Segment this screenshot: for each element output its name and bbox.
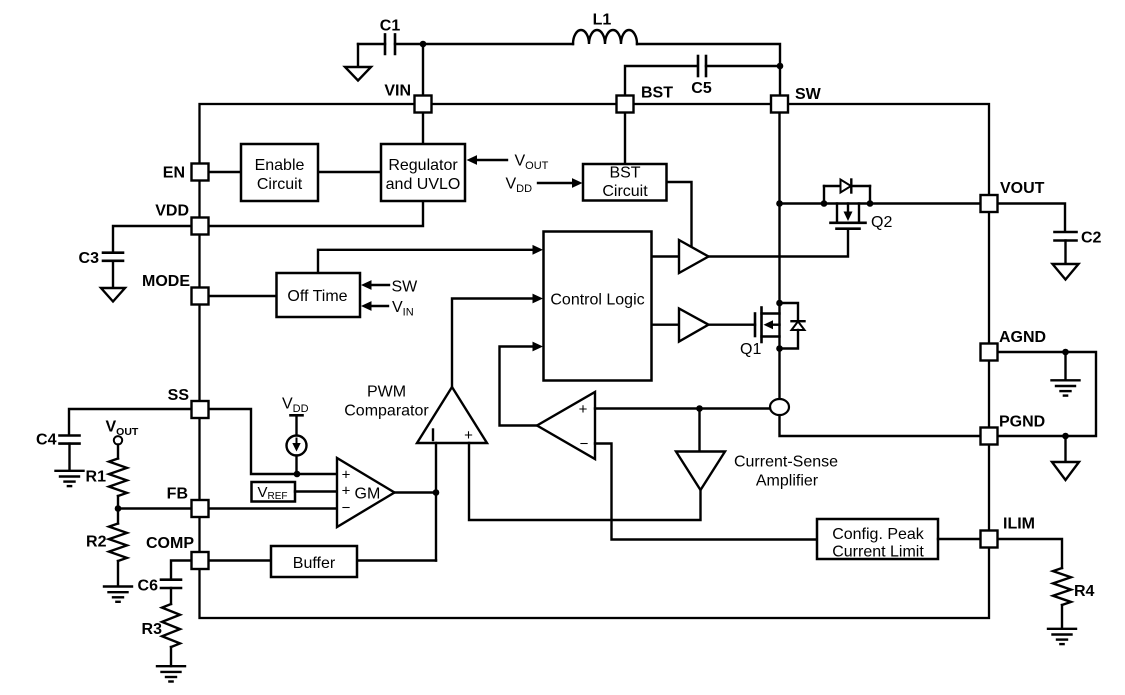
wire GM output node down to Buffer [435, 493, 437, 561]
svg-text:VIN: VIN [392, 299, 414, 319]
wire Off Time top to Control Logic input 1 [318, 250, 534, 273]
wire R1 to FB node [117, 496, 119, 509]
wire tap down to current-sense amplifier [698, 409, 700, 452]
wire EN pin to Enable Circuit [208, 171, 241, 173]
svg-text:R3: R3 [142, 621, 163, 638]
label R1 [86, 469, 107, 486]
svg-text:Control Logic: Control Logic [550, 292, 644, 309]
wire driver U4 output to Q1 gate [709, 324, 756, 326]
label VIN (off-time input) [392, 299, 414, 319]
arrow VIN into Off Time [361, 301, 388, 311]
label Q1 [740, 341, 761, 358]
capacitor C5 [698, 56, 706, 76]
svg-text:BST: BST [641, 85, 673, 102]
capacitor C3 [103, 253, 123, 261]
pin ILIM [981, 531, 998, 548]
pin COMP [192, 552, 209, 569]
ground (PGND, power) [1052, 436, 1079, 480]
svg-text:SS: SS [168, 387, 190, 404]
junction VIN-top node [420, 41, 427, 48]
svg-text:VOUT: VOUT [515, 153, 549, 173]
pin label FB [167, 486, 188, 503]
junction current source node [294, 471, 301, 478]
pin VIN [415, 96, 432, 113]
arrow VOUT into Regulator [467, 155, 508, 165]
ground (R4) [1048, 605, 1076, 644]
pin label EN [163, 165, 185, 182]
driver U3 (high-side) [679, 240, 709, 273]
junction FB divider node [115, 505, 122, 512]
driver U4 (low-side) [679, 309, 709, 342]
svg-text:Q1: Q1 [740, 341, 761, 358]
svg-text:Current Limit: Current Limit [832, 544, 924, 561]
ground (R2) [104, 561, 132, 602]
wire VOUT pin to C2 [997, 204, 1065, 232]
capacitor C4 [60, 436, 80, 444]
svg-text:+: + [342, 467, 351, 484]
svg-text:PGND: PGND [999, 414, 1045, 431]
block Buffer [271, 546, 357, 577]
wire BST pin to BST Circuit top [624, 104, 626, 164]
wire sense comparator + input from oval [595, 407, 770, 409]
svg-text:AGND: AGND [999, 329, 1046, 346]
svg-text:SW: SW [795, 86, 822, 103]
arrowhead Control Logic input 2 [533, 294, 544, 304]
svg-text:GM: GM [355, 486, 381, 503]
pin PGND [981, 428, 998, 445]
wire VIN pin to Regulator top [422, 104, 424, 144]
svg-text:ILIM: ILIM [1003, 516, 1035, 533]
svg-text:+: + [342, 483, 351, 500]
wire Control Logic output 2 to driver U4 [652, 324, 680, 326]
ground (AGND, signal) [1052, 352, 1080, 396]
wire BST pin riser [625, 66, 697, 96]
label PWM Comparator [344, 384, 429, 420]
svg-text:R4: R4 [1074, 583, 1095, 600]
wire MODE pin to Off Time [208, 295, 277, 297]
pin label AGND [999, 329, 1046, 346]
pin VOUT [981, 195, 998, 212]
arrow SW into Off Time [361, 280, 389, 290]
svg-text:VDD: VDD [506, 176, 533, 196]
block Regulator and UVLO [381, 144, 465, 201]
junction SW/Q2 node [776, 200, 783, 207]
label VOUT (regulator input) [515, 153, 549, 173]
pin label ILIM [1003, 516, 1035, 533]
svg-text:+: + [464, 427, 473, 444]
arrow VDD into BST Circuit [538, 178, 583, 188]
capacitor C6 [161, 580, 181, 588]
svg-text:−: − [342, 500, 351, 517]
op-amp GM (error amplifier) [337, 458, 395, 527]
wire Config Peak to ILIM pin [938, 538, 981, 540]
wire driver U3 output to Q2 gate [709, 229, 849, 257]
svg-text:FB: FB [167, 486, 188, 503]
svg-text:PWM: PWM [367, 384, 406, 401]
label L1 [593, 12, 612, 29]
svg-text:C3: C3 [79, 250, 100, 267]
wire C6 to R3 [170, 588, 172, 604]
label VOUT (feedback input) [106, 419, 139, 439]
ground (R3) [157, 647, 185, 682]
wire VIN-top node down to VIN pin [422, 44, 424, 96]
wire AGND pin to ground net [997, 352, 1096, 436]
svg-text:Regulator: Regulator [388, 157, 458, 174]
svg-text:Buffer: Buffer [293, 555, 336, 572]
label Q2 [871, 214, 892, 231]
pin label MODE [142, 273, 190, 290]
label R3 [142, 621, 163, 638]
svg-text:Current-Sense: Current-Sense [734, 454, 838, 471]
pin FB [192, 500, 209, 517]
svg-text:COMP: COMP [146, 535, 194, 552]
comparator U5 (PWM) [417, 387, 487, 444]
wire Control Logic output 1 to driver U3 [652, 255, 680, 257]
svg-text:MODE: MODE [142, 273, 190, 290]
label VDD (BST circuit input) [506, 176, 533, 196]
wire SS pin to C4 [69, 409, 191, 435]
svg-text:C2: C2 [1081, 230, 1102, 247]
wire PWM comparator left input [435, 443, 437, 493]
resistor R2 [109, 524, 127, 561]
wire SW branch below sense element to PGND [780, 415, 982, 436]
pin label BST [641, 85, 673, 102]
wire VDD pin to C3 [113, 226, 191, 252]
junction AGND ground stub [1062, 349, 1069, 356]
current source I1 [287, 415, 307, 474]
block BST Circuit [583, 164, 667, 201]
ground (C3) [101, 261, 125, 302]
wire FB node down to R2 [117, 509, 119, 524]
wire node to L1 [423, 43, 573, 45]
capacitor C1 [385, 34, 395, 54]
svg-text:Enable: Enable [255, 157, 305, 174]
wire ground to C1 [358, 43, 385, 45]
wire Regulator bottom to VDD pin [208, 201, 423, 226]
wire L1 to SW-top corner [637, 44, 780, 66]
svg-text:Config. Peak: Config. Peak [832, 526, 925, 543]
svg-text:Q2: Q2 [871, 214, 892, 231]
inductor L1 [573, 30, 637, 44]
svg-text:VOUT: VOUT [1000, 180, 1045, 197]
svg-text:VOUT: VOUT [106, 419, 139, 439]
transistor Q2 [821, 180, 874, 229]
wire C5 to SW node [706, 65, 780, 67]
wire Enable Circuit to Regulator [318, 171, 381, 173]
svg-text:VDD: VDD [155, 203, 189, 220]
wire SW node down to SW pin [779, 66, 781, 96]
wire VREF to GM input [295, 490, 337, 492]
pin label COMP [146, 535, 194, 552]
svg-text:C6: C6 [138, 578, 159, 595]
reference VREF box [252, 482, 296, 502]
svg-text:R1: R1 [86, 469, 107, 486]
svg-text:VIN: VIN [384, 83, 411, 100]
pin VDD [192, 218, 209, 235]
svg-text:VDD: VDD [282, 396, 309, 416]
current sense element (oval) on SW branch [770, 399, 789, 415]
wire GM output to PWM comparator input [395, 491, 437, 493]
svg-text:C1: C1 [380, 18, 401, 35]
pin label VIN [384, 83, 411, 100]
pin label SS [168, 387, 190, 404]
wire ILIM pin to R4 [997, 539, 1062, 568]
label C2 [1081, 230, 1102, 247]
resistor R1 [109, 459, 127, 496]
svg-text:Circuit: Circuit [257, 176, 303, 193]
resistor R3 [162, 604, 180, 647]
wire Buffer to GM output node [357, 559, 436, 561]
wire Q2 node to VOUT pin [780, 202, 982, 204]
svg-text:C4: C4 [36, 432, 57, 449]
pin EN [192, 164, 209, 181]
pin label PGND [999, 414, 1045, 431]
arrowhead Control Logic input 3 [533, 342, 544, 352]
wire COMP pin to Buffer [208, 559, 271, 561]
wire VOUT terminal to R1 [117, 445, 119, 459]
junction GM output node [433, 489, 440, 496]
label C5 [691, 80, 712, 97]
svg-text:SW: SW [392, 279, 419, 296]
comparator U6 (valley/sense) [537, 392, 595, 459]
svg-text:and UVLO: and UVLO [386, 176, 461, 193]
label C4 [36, 432, 57, 449]
label VDD (current source) [282, 396, 309, 416]
wire PWM comparator right input from current-sense [469, 443, 701, 520]
pin label SW [795, 86, 822, 103]
svg-text:Off Time: Off Time [287, 288, 347, 305]
pin label VOUT [1000, 180, 1045, 197]
wire FB node to GM inverting input [118, 507, 337, 509]
svg-text:Comparator: Comparator [344, 403, 429, 420]
pin label VDD [155, 203, 189, 220]
terminal VOUT (open circle) [114, 436, 122, 444]
transistor Q1 [755, 300, 805, 352]
pin SW [771, 96, 788, 113]
svg-text:C5: C5 [691, 80, 712, 97]
pin MODE [192, 288, 209, 305]
junction SW-top node [777, 63, 784, 70]
block Config. Peak Current Limit [817, 519, 938, 561]
junction current-sense tap [696, 405, 703, 412]
label C6 [138, 578, 159, 595]
wire C1 to node VIN-top [395, 43, 423, 45]
resistor R4 [1053, 568, 1071, 605]
block Control Logic [544, 232, 652, 381]
pin BST [617, 96, 634, 113]
label C1 [380, 18, 401, 35]
svg-text:EN: EN [163, 165, 185, 182]
junction PGND ground stub [1062, 433, 1069, 440]
block Off Time [277, 273, 361, 317]
ground (C4) [56, 444, 84, 487]
svg-text:L1: L1 [593, 12, 612, 29]
IC boundary [200, 104, 990, 618]
ground (input, under C1) [345, 44, 371, 81]
wire sense comparator - input to Config Peak [595, 444, 817, 540]
label Current-Sense Amplifier [734, 454, 838, 490]
wire BST Circuit to driver U3 supply [667, 182, 692, 249]
wire PWM comparator output to Control Logic input 2 [452, 299, 534, 388]
svg-text:+: + [579, 401, 588, 418]
amplifier U7 (current-sense, pointing down) [676, 452, 725, 491]
wire sense comparator output to Control Logic input 3 [500, 347, 538, 426]
label R4 [1074, 583, 1095, 600]
wire SW pin down through Q2/Q1 branch [778, 104, 780, 399]
svg-text:BST: BST [609, 165, 640, 182]
capacitor C2 [1055, 232, 1077, 241]
label SW (off-time input) [392, 279, 419, 296]
ground (C2) [1053, 241, 1079, 280]
label C3 [79, 250, 100, 267]
power rail VDD tick (current source) [291, 414, 303, 417]
svg-text:Circuit: Circuit [602, 183, 648, 200]
wire COMP pin to C6 [171, 561, 191, 580]
pin AGND [981, 344, 998, 361]
label R2 [86, 534, 107, 551]
wire SS pin to charge node [208, 409, 337, 474]
svg-text:R2: R2 [86, 534, 107, 551]
arrowhead Control Logic input 1 [533, 245, 544, 255]
block Enable Circuit [241, 144, 318, 201]
svg-text:Amplifier: Amplifier [756, 473, 819, 490]
pin SS [192, 401, 209, 418]
svg-text:−: − [580, 436, 589, 453]
